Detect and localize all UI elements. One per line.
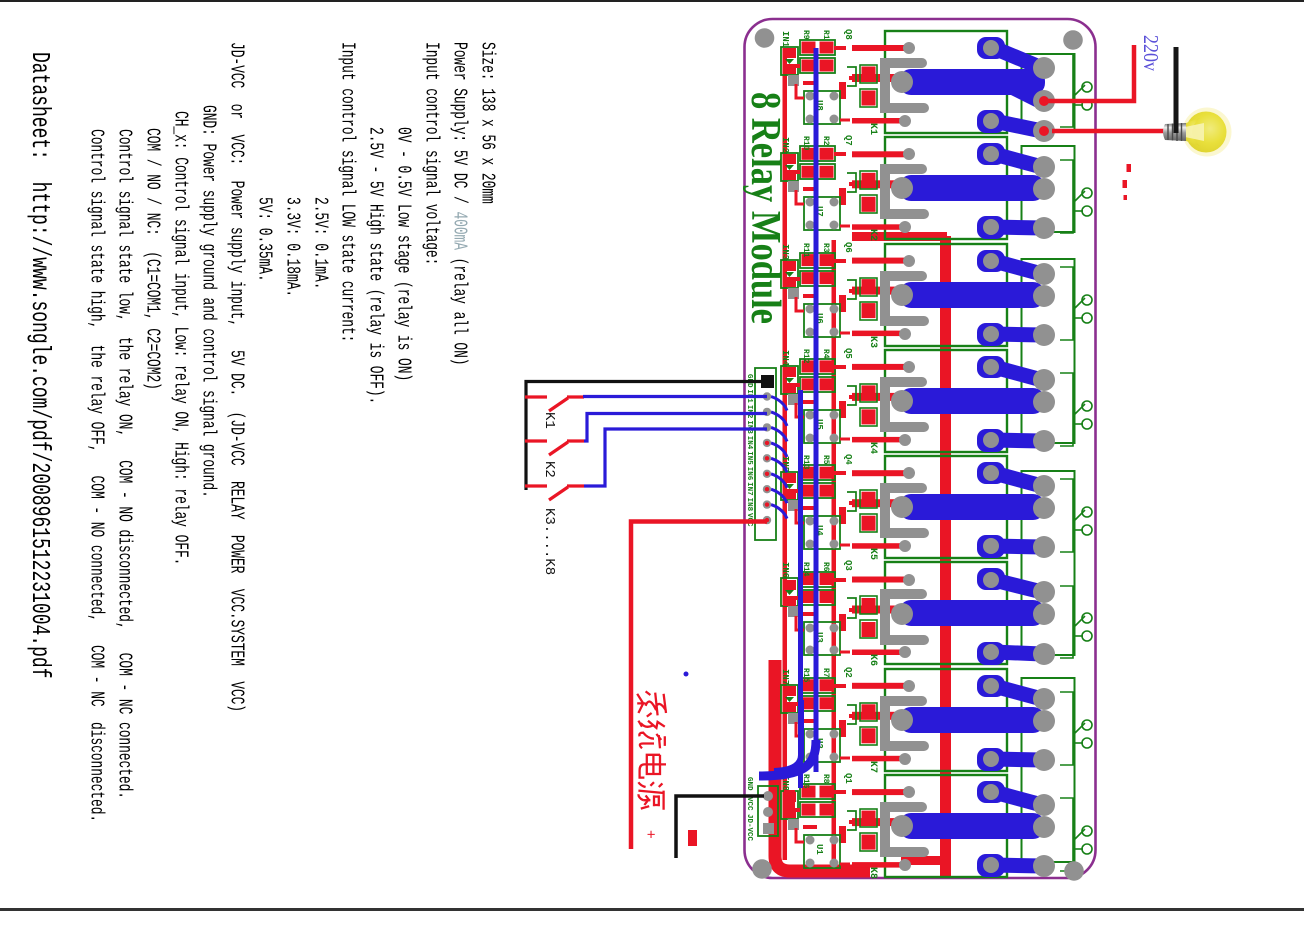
svg-text:IN4: IN4 (745, 436, 753, 450)
svg-text:JD-VCC: JD-VCC (745, 814, 753, 842)
svg-text:K5: K5 (867, 548, 878, 560)
svg-text:K1: K1 (867, 123, 878, 135)
svg-text:VCC: VCC (745, 797, 753, 811)
svg-text:K8: K8 (867, 867, 878, 879)
svg-text:K3: K3 (867, 336, 878, 348)
svg-text:+: + (642, 830, 659, 839)
svg-text:IN6: IN6 (745, 467, 753, 481)
svg-text:K1: K1 (541, 412, 557, 429)
svg-text:K3....K8: K3....K8 (541, 508, 557, 575)
svg-text:R1: R1 (821, 30, 830, 40)
svg-text:K2: K2 (541, 461, 557, 478)
svg-text:R9: R9 (801, 30, 810, 40)
svg-text:K4: K4 (867, 442, 878, 454)
svg-text:IN5: IN5 (745, 451, 753, 465)
svg-text:R5: R5 (821, 455, 830, 465)
svg-text:IN7: IN7 (745, 482, 753, 496)
svg-text:U1: U1 (814, 844, 824, 855)
svg-text:Q4: Q4 (843, 454, 853, 465)
svg-text:Q1: Q1 (843, 773, 853, 784)
svg-text:GND: GND (745, 777, 753, 791)
svg-text:R8: R8 (821, 774, 830, 784)
svg-text:R6: R6 (821, 562, 830, 572)
svg-text:R11: R11 (801, 243, 810, 258)
svg-text:R7: R7 (821, 668, 830, 678)
svg-text:R4: R4 (821, 349, 830, 359)
svg-text:R2: R2 (821, 136, 830, 146)
svg-text:Q8: Q8 (843, 29, 853, 40)
svg-text:Q5: Q5 (843, 348, 853, 359)
svg-text:IN8: IN8 (745, 498, 753, 512)
svg-text:K6: K6 (867, 654, 878, 666)
svg-text:8 Relay Module: 8 Relay Module (742, 92, 788, 324)
svg-text:Q2: Q2 (843, 667, 853, 678)
svg-text:IN7: IN7 (780, 669, 790, 685)
svg-text:K2: K2 (867, 229, 878, 241)
svg-text:R3: R3 (821, 243, 830, 253)
svg-text:IN4: IN4 (780, 350, 790, 367)
svg-text:K7: K7 (867, 761, 878, 773)
svg-text:R12: R12 (801, 349, 810, 364)
svg-text:Q6: Q6 (843, 242, 853, 253)
svg-text:IN1: IN1 (780, 31, 790, 48)
svg-text:R10: R10 (801, 136, 810, 151)
svg-text:Q3: Q3 (843, 560, 853, 571)
svg-text:IN6: IN6 (780, 562, 790, 578)
svg-text:Q7: Q7 (843, 135, 853, 146)
